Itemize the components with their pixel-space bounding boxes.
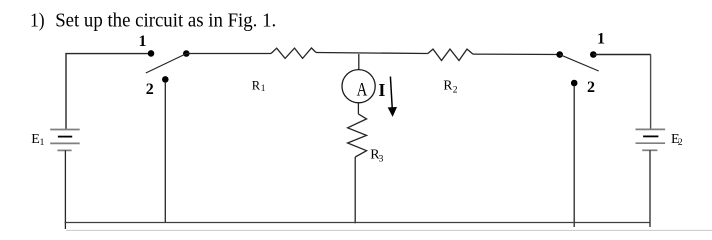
svg-text:3: 3 xyxy=(379,154,384,164)
battery E1 plate short gray xyxy=(57,149,71,151)
svg-text:1: 1 xyxy=(261,83,266,93)
svg-text:1): 1) xyxy=(30,10,45,31)
battery E1 plate short black xyxy=(58,136,72,138)
node switch-right position 1 xyxy=(590,51,597,58)
wire switch-left position 2 down xyxy=(164,82,166,223)
wire E2 top vertical xyxy=(650,55,652,129)
battery E1 plate long bottom xyxy=(50,142,79,144)
svg-text:E: E xyxy=(31,132,40,147)
svg-text:2: 2 xyxy=(453,85,458,95)
battery E2 plate short gray xyxy=(642,149,657,151)
battery E1 plate long top xyxy=(50,129,79,131)
wire switch-right pos1 to E2 xyxy=(593,54,651,56)
wire pivot to R1 xyxy=(186,53,271,55)
node switch-right position 2 xyxy=(571,80,578,87)
svg-text:R: R xyxy=(252,79,261,93)
wire R2 to switch-right pivot xyxy=(473,53,560,55)
faint page line xyxy=(66,229,712,231)
switch S1 blade xyxy=(146,54,186,73)
resistor R3 xyxy=(348,114,367,157)
node switch-left position 2 xyxy=(162,76,169,83)
wire E2 bottom xyxy=(649,150,651,227)
resistor R1 xyxy=(271,48,316,58)
svg-text:I: I xyxy=(378,80,385,100)
node switch-right pivot xyxy=(556,51,563,58)
svg-text:A: A xyxy=(357,79,368,100)
current arrow xyxy=(390,77,392,108)
battery E2 plate long bottom xyxy=(636,142,666,144)
svg-text:R: R xyxy=(443,78,452,93)
switch S2 blade xyxy=(560,55,599,71)
svg-text:2: 2 xyxy=(587,79,595,96)
wire R1 to R2 (through junction) xyxy=(316,53,428,54)
resistor R2 xyxy=(428,49,473,60)
wire E1 bottom xyxy=(64,150,66,229)
svg-text:1: 1 xyxy=(597,31,605,48)
svg-text:Set up the circuit as in Fig.: Set up the circuit as in Fig. 1. xyxy=(55,10,276,31)
node switch-left pivot xyxy=(183,50,190,57)
svg-text:1: 1 xyxy=(139,33,147,50)
node switch-left position 1 xyxy=(148,50,155,57)
bottom rail xyxy=(65,222,650,224)
ammeter A xyxy=(342,70,375,103)
battery E2 plate short black xyxy=(643,135,658,137)
wire E1 top vertical xyxy=(65,53,67,130)
svg-text:2: 2 xyxy=(678,138,683,148)
wire R3 down to rail xyxy=(354,157,356,223)
wire ammeter bottom to R3 xyxy=(357,103,359,114)
battery E2 plate long top xyxy=(636,128,666,130)
svg-text:1: 1 xyxy=(40,138,45,148)
wire junction down to ammeter xyxy=(358,54,360,70)
wire top-left horizontal xyxy=(65,53,151,55)
svg-text:2: 2 xyxy=(146,81,154,98)
wire switch-right position 2 down xyxy=(573,86,575,228)
